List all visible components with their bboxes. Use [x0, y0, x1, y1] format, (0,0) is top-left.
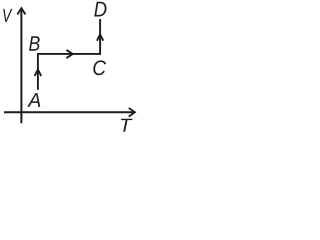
T axis arrowhead: [129, 108, 135, 117]
node B label: [29, 36, 40, 50]
node C label: [93, 60, 106, 75]
label T (horizontal axis): [121, 119, 133, 132]
V axis arrowhead: [17, 8, 25, 14]
arrow on segment C to D (up chevron): [97, 34, 103, 40]
V axis (vertical axis line): [20, 9, 22, 124]
wire: process path segment B to C (horizontal): [37, 53, 100, 55]
wire: process path segment A to B (vertical): [37, 54, 39, 90]
T axis (horizontal axis line): [4, 111, 134, 113]
node A label: [27, 93, 40, 107]
label V (vertical axis): [3, 9, 12, 22]
node D label: [94, 2, 106, 17]
arrow on segment B to C (right chevron): [66, 50, 72, 58]
arrow on segment A to B (up chevron): [35, 70, 42, 76]
wire: process path segment C to D (vertical): [99, 19, 101, 55]
